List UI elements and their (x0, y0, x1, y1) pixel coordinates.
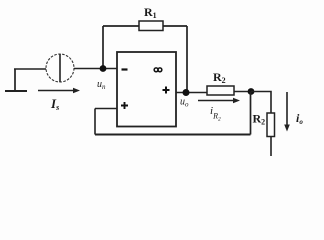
resistor R1 body (139, 21, 163, 31)
resistor R2 body (vertical load) (267, 113, 275, 137)
arrow: source current Is (38, 88, 80, 94)
op-amp U1 (ideal, infinite gain) (117, 52, 176, 127)
wire: R2 to right corner (234, 91, 251, 93)
label R2 (vertical resistor) (253, 112, 266, 127)
wire: junction down to bottom rail (250, 92, 252, 135)
label uo (180, 97, 189, 109)
ground (5, 69, 27, 91)
wire: noninverting input lead (95, 108, 117, 110)
wire: left vertical drop from top run to inverting node (102, 26, 104, 68)
wire: bottom rail (95, 134, 251, 136)
resistor R2 body (horizontal) (207, 86, 234, 95)
wire: junction to load corner (251, 92, 271, 114)
wire: noninverting input down-stub (94, 109, 96, 135)
wire: top feedback run, right segment from R1 (163, 25, 187, 27)
wire: right vertical drop from top run to output node (186, 26, 188, 92)
arrow: output current io (284, 92, 290, 132)
label R2 (horizontal resistor) (213, 70, 226, 85)
node: junction of R2, load and feedback rail (248, 88, 255, 95)
label R1 (144, 5, 157, 20)
label io (296, 111, 303, 126)
node uo (junction dot, output) (183, 89, 190, 96)
label Is (50, 96, 59, 112)
wire: current source to op-amp inverting input (74, 68, 117, 70)
arrow: current iR2 (198, 98, 240, 104)
label un (97, 79, 106, 91)
wire: load bottom lead (270, 137, 272, 157)
current source Is (46, 54, 74, 82)
label iR2 (210, 105, 221, 123)
node un (junction dot, inverting input) (100, 65, 107, 72)
wire: top feedback run, left segment to R1 (103, 25, 139, 27)
wire: ground to current source left terminal (14, 68, 46, 70)
wire: op-amp output to R2 (176, 92, 207, 94)
